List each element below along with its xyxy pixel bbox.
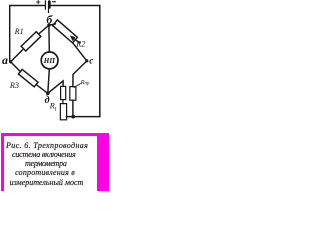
battery B1 negative plate: [48, 2, 51, 8]
svg-text:а: а: [2, 53, 8, 67]
wire between Rpr left and Rt: [62, 100, 64, 104]
resistor Rt body (thermometer): [60, 104, 66, 120]
svg-text:Rt: Rt: [49, 100, 57, 112]
plus sign: [37, 0, 40, 3]
node a: [9, 60, 12, 63]
wire top-right frame (battery - to right corner): [51, 6, 100, 117]
caption line 2: [12, 150, 76, 159]
wire a to R1: [11, 50, 23, 62]
arrow on R2 (adjustable): [73, 38, 80, 43]
svg-text:Rпр: Rпр: [80, 79, 90, 87]
wire Rpr right to bottom junction: [72, 100, 74, 116]
caption highlight box top bar: [1, 133, 109, 136]
wire battery to node b: [48, 8, 50, 13]
galvanometer NP circle: [41, 52, 58, 69]
resistor R3 body: [18, 69, 38, 87]
wire R1 to b: [39, 25, 49, 34]
svg-text:R1: R1: [14, 27, 24, 36]
wire b to galvanometer: [48, 26, 50, 51]
minus sign: [52, 1, 55, 3]
wire d to left column: [48, 81, 63, 93]
battery B1 positive plate: [44, 1, 46, 10]
wire R2 to c: [73, 43, 87, 61]
svg-text:R2: R2: [75, 39, 85, 48]
resistor R1 body: [21, 32, 41, 51]
resistor Rpr right body: [70, 87, 76, 101]
caption line 5: [10, 178, 84, 187]
wire R3 to d: [36, 85, 48, 94]
caption line 4: [15, 168, 75, 177]
wire b to R2: [49, 24, 56, 25]
wire a to R3: [11, 62, 21, 72]
wire galvanometer to d: [48, 70, 50, 94]
wire bottom (third wire to thermometer junction): [66, 116, 99, 118]
svg-text:НП: НП: [43, 57, 56, 65]
caption line 3: [25, 159, 67, 168]
caption highlight box left bar: [1, 133, 4, 191]
wire top-left frame (battery + to corner): [10, 6, 45, 62]
leader line for Rpr label: [74, 84, 81, 88]
node d: [46, 92, 50, 96]
resistor R2 body: [53, 20, 78, 43]
node b: [47, 24, 50, 27]
junction bottom: [71, 115, 75, 119]
resistor Rpr left body: [61, 86, 66, 99]
caption line 1: [6, 141, 88, 150]
caption highlight box right band: [97, 133, 109, 191]
svg-text:R3: R3: [9, 81, 19, 90]
arrowhead of R2 arrow: [70, 35, 75, 41]
node c: [85, 59, 88, 62]
wire c to right column: [73, 61, 87, 87]
svg-text:с: с: [89, 56, 93, 66]
